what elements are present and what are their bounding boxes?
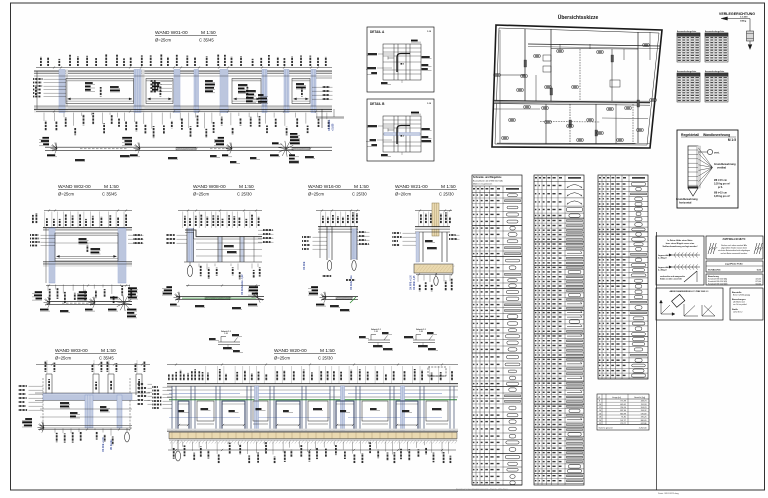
svg-text:Lage/Platte Füller: Lage/Platte Füller: [725, 263, 743, 266]
bending schedule table 3: [598, 175, 648, 379]
svg-text:8: 8: [599, 401, 600, 403]
title WAND W16-00: [308, 184, 370, 197]
svg-text:M 1:5: M 1:5: [728, 138, 736, 142]
svg-text:Grundbewehrung: Grundbewehrung: [714, 162, 736, 166]
svg-text:191,93: 191,93: [641, 404, 647, 406]
svg-text:abgestellten Stäbe müssen beim: abgestellten Stäbe müssen beim: [721, 247, 748, 250]
steel list table: [677, 70, 700, 102]
svg-text:M 1:50: M 1:50: [354, 184, 369, 190]
bending schedule table 1: [472, 175, 522, 485]
svg-text:18: 18: [599, 417, 601, 419]
svg-text:Ø=25cm: Ø=25cm: [193, 192, 209, 197]
svg-text:C 35/45: C 35/45: [99, 356, 114, 361]
Abdeckmarkierung box: [656, 288, 723, 320]
svg-text:Beton C25/30 gängig: Beton C25/30 gängig: [733, 294, 750, 297]
svg-text:M 1:50: M 1:50: [441, 184, 456, 190]
svg-text:+2,635: +2,635: [332, 123, 335, 131]
title WAND W03-00: [55, 348, 117, 361]
svg-text:Stäbe an allen unverteilt: Stäbe an allen unverteilt: [660, 278, 682, 281]
svg-text:Regeldetail: Regeldetail: [681, 133, 699, 137]
svg-text:M 1:50: M 1:50: [320, 348, 335, 354]
steel list table: [705, 70, 728, 102]
info box: [730, 288, 763, 320]
steel list table: [705, 30, 728, 62]
svg-text:14: 14: [599, 410, 601, 412]
svg-text:VERLEGERICHTUNG: VERLEGERICHTUNG: [719, 12, 755, 16]
svg-text:295,25: 295,25: [641, 417, 647, 419]
svg-text:16: 16: [599, 413, 601, 415]
title WAND W08-00: [193, 184, 255, 197]
svg-text:Länge [m]: Länge [m]: [612, 397, 621, 399]
svg-text:Bewehrungsplan Wandelemente EG: Bewehrungsplan Wandelemente EG - Plan Nr…: [456, 487, 508, 490]
detail box Regeldetail Wandbewehrung: [676, 130, 738, 208]
wall plan strip W08-00: [162, 286, 264, 309]
svg-text:M 1:50: M 1:50: [101, 348, 116, 354]
floor plan Uebersichtsskizze: [492, 14, 662, 148]
svg-text:Ø=20cm: Ø=20cm: [395, 192, 411, 197]
wall elevation W21-00: [392, 203, 460, 291]
wall elevation W01-00: [33, 54, 344, 138]
svg-text:10: 10: [599, 404, 601, 406]
wall plan strip W01-00: [39, 133, 332, 164]
bending schedule table 2: [534, 175, 584, 485]
svg-text:WAND W20-00: WAND W20-00: [274, 348, 307, 354]
svg-text:Ø=25cm: Ø=25cm: [55, 356, 71, 361]
svg-text:449,41: 449,41: [620, 404, 626, 406]
svg-text:M 1:50: M 1:50: [201, 30, 216, 36]
svg-text:775,99: 775,99: [620, 401, 626, 403]
svg-text:bzw. eines Bügels muss eine: bzw. eines Bügels muss eine: [666, 243, 695, 245]
svg-text:vert.: vert.: [714, 151, 720, 155]
svg-text:C 25/30: C 25/30: [318, 356, 333, 361]
svg-text:senkrechte und waagrechte: senkrechte und waagrechte: [660, 275, 685, 278]
svg-text:siehe Bl. 12: siehe Bl. 12: [733, 312, 742, 314]
svg-text:C 25/30: C 25/30: [352, 192, 367, 197]
mini section detail Schnitt 1-1: [404, 328, 438, 351]
svg-text:433,73: 433,73: [641, 401, 647, 403]
svg-text:570,69: 570,69: [641, 413, 647, 415]
steel list table: [677, 30, 700, 62]
svg-text:2.262,00: 2.262,00: [639, 428, 648, 430]
wall elevation W03-00: [18, 360, 152, 452]
svg-text:954,23: 954,23: [641, 407, 647, 409]
svg-text:C 25/30: C 25/30: [439, 192, 454, 197]
svg-text:OK FFB +0,00: OK FFB +0,00: [103, 437, 105, 452]
svg-text:DETAIL A: DETAIL A: [370, 30, 385, 34]
title WAND W20-00: [274, 348, 336, 361]
svg-text:C 25/30: C 25/30: [237, 192, 252, 197]
svg-text:Stecker nach oben montiert! Al: Stecker nach oben montiert! Alle: [721, 244, 747, 247]
svg-text:Ø=25cm: Ø=25cm: [155, 38, 171, 43]
svg-text:91,81: 91,81: [621, 417, 626, 419]
svg-text:Baustoffe:: Baustoffe:: [732, 291, 742, 294]
svg-text:12: 12: [599, 407, 601, 409]
svg-text:OK Rohdecke -0,22: OK Rohdecke -0,22: [242, 274, 244, 295]
wall elevation W16-00: [302, 209, 370, 290]
svg-text:Ø=25cm: Ø=25cm: [274, 356, 290, 361]
Zapfenloch box: [706, 236, 763, 259]
svg-text:Schneide- und Biegeliste: Schneide- und Biegeliste: [473, 176, 502, 179]
steel summary table: [597, 394, 649, 430]
svg-text:M 1:50: M 1:50: [104, 184, 119, 190]
svg-text:und mit Beton ummantelt werden: und mit Beton ummantelt werden.: [721, 252, 748, 255]
title WAND W02-00: [58, 184, 120, 197]
svg-text:b.z.Bügel: b.z.Bügel: [658, 257, 667, 259]
svg-text:863,99: 863,99: [620, 413, 626, 415]
svg-text:1:10: 1:10: [419, 331, 422, 333]
svg-text:WAND W21-00: WAND W21-00: [395, 184, 428, 190]
svg-text:Ø=25cm: Ø=25cm: [58, 192, 74, 197]
mini section detail Schnitt 1-1: [209, 330, 243, 353]
svg-text:Statik:: Statik:: [732, 308, 738, 311]
north / laying direction arrow VERLEGERICHTUNG: [719, 12, 755, 50]
floor plan interior walls: [494, 29, 661, 144]
Bewehrung summary box: [706, 274, 763, 286]
svg-text:UK Decke: UK Decke: [111, 439, 113, 450]
wall elevation W08-00: [166, 209, 274, 295]
svg-text:WAND W01-00: WAND W01-00: [155, 30, 188, 36]
svg-text:Gewicht [kg]: Gewicht [kg]: [634, 396, 645, 399]
svg-text:vor Ort zu prüfen!: vor Ort zu prüfen!: [733, 303, 747, 306]
svg-text:100kg: 100kg: [740, 21, 747, 23]
svg-text:DETAIL B: DETAIL B: [370, 102, 385, 106]
svg-text:744,10: 744,10: [620, 407, 626, 409]
wall elevation W20-00: [152, 363, 458, 464]
svg-text:Rundstahl BSt 550 M(B): Rundstahl BSt 550 M(B): [708, 283, 728, 286]
title WAND W21-00: [395, 184, 457, 197]
svg-text:Schlossbewehrung verlegt werde: Schlossbewehrung verlegt werden!: [663, 245, 698, 248]
svg-text:ZAPFWALLSCHUTC: ZAPFWALLSCHUTC: [723, 238, 746, 241]
svg-text:1:1.000: 1:1.000: [740, 17, 748, 19]
separator line: [656, 232, 658, 490]
svg-text:WAND W08-00: WAND W08-00: [193, 184, 226, 190]
wall elevation W02-00: [30, 209, 144, 303]
svg-text:3,35 kg pro m²: 3,35 kg pro m²: [714, 182, 730, 186]
svg-text:WAND W16-00: WAND W16-00: [308, 184, 341, 190]
detail box DETAIL B: [366, 99, 434, 161]
svg-text:OK RFB -0,35: OK RFB -0,35: [414, 275, 416, 290]
svg-text:SCHALUNG: SCHALUNG: [708, 269, 721, 272]
svg-text:837,64: 837,64: [620, 410, 626, 412]
svg-text:1:10: 1:10: [224, 333, 227, 335]
svg-text:Maße in cm gemessen: Maße in cm gemessen: [473, 184, 492, 186]
svg-text:860,69: 860,69: [641, 420, 647, 422]
svg-text:OK FFB +0,00: OK FFB +0,00: [411, 275, 413, 290]
svg-text:In Deine Höhe einer Niete: In Deine Höhe einer Niete: [667, 239, 693, 242]
svg-text:C 35/45: C 35/45: [102, 192, 117, 197]
svg-text:20: 20: [599, 420, 601, 422]
svg-text:OK FFB: OK FFB: [304, 261, 306, 270]
svg-text:nächsten Betonierabschnitt auf: nächsten Betonierabschnitt aufgebogen: [718, 249, 750, 252]
svg-text:Übersichtsskizze: Übersichtsskizze: [558, 14, 599, 21]
svg-text:ABDECKMARKIERUNG LT. ÖNB 1992-: ABDECKMARKIERUNG LT. ÖNB 1992-1-1: [669, 290, 709, 293]
svg-text:Summe gesamt: Summe gesamt: [599, 427, 613, 430]
svg-text:WAND W02-00: WAND W02-00: [58, 184, 91, 190]
svg-text:507,27: 507,27: [620, 420, 626, 422]
svg-text:Grundbewehrung: Grundbewehrung: [676, 197, 698, 201]
notes box with anchor sketches: [656, 236, 704, 285]
svg-text:Baustahlsorte: alle Ø BSt 500: Baustahlsorte: alle Ø BSt 500 S (B): [473, 180, 503, 183]
wall plan strip W16-00: [308, 286, 358, 311]
svg-text:1:10: 1:10: [374, 331, 377, 333]
svg-text:b.z.Bügel: b.z.Bügel: [658, 269, 667, 271]
title WAND W01-00: [155, 30, 217, 43]
svg-text:M 1:50: M 1:50: [239, 184, 254, 190]
svg-text:OK Rohdecke: OK Rohdecke: [351, 274, 353, 290]
svg-text:horizontal: horizontal: [679, 201, 692, 205]
svg-text:je S.: je S.: [717, 186, 723, 189]
Schalung table: [706, 261, 763, 272]
svg-text:Wandbewehrung: Wandbewehrung: [703, 133, 730, 137]
mini section detail Schnitt 1-1: [359, 328, 393, 351]
svg-text:Datei: W01-W21.dwg: Datei: W01-W21.dwg: [658, 492, 679, 495]
detail box DETAIL A: [366, 27, 434, 92]
svg-text:3,35 kg pro m²: 3,35 kg pro m²: [714, 194, 730, 198]
svg-text:Ø=25cm: Ø=25cm: [308, 192, 324, 197]
svg-text:C 35/45: C 35/45: [199, 38, 214, 43]
svg-text:553,00: 553,00: [756, 284, 762, 286]
wall plan strip W02-00: [32, 287, 138, 318]
svg-text:WAND W03-00: WAND W03-00: [55, 348, 88, 354]
svg-text:264,32: 264,32: [641, 410, 647, 412]
svg-text:vertikal: vertikal: [717, 166, 726, 170]
